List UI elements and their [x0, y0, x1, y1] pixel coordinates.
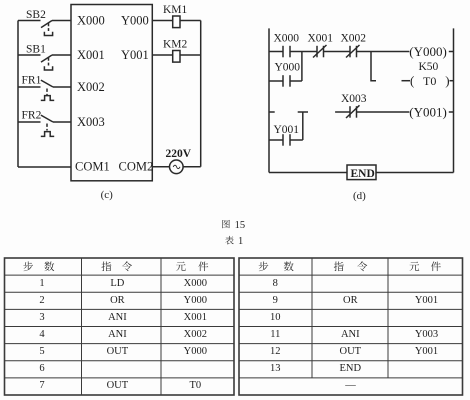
- svg-text:LD: LD: [110, 278, 124, 289]
- svg-text:X000: X000: [184, 278, 207, 289]
- svg-text:(Y000): (Y000): [409, 44, 447, 59]
- svg-text:4: 4: [39, 329, 45, 340]
- svg-text:OUT: OUT: [107, 346, 129, 357]
- svg-text:11: 11: [270, 329, 280, 340]
- svg-text:Y000: Y000: [275, 62, 301, 74]
- thermal relay contact FR1: [18, 75, 54, 101]
- svg-text:T0: T0: [423, 74, 436, 88]
- wire rail stub rung2: [269, 111, 275, 113]
- svg-text:ANI: ANI: [108, 312, 127, 323]
- node junction A: [301, 52, 303, 82]
- contact X003 (NC): [341, 93, 367, 118]
- table header left: [23, 261, 208, 271]
- wire to X003: [335, 111, 350, 113]
- svg-text:Y001: Y001: [415, 346, 438, 357]
- contactor coil KM2: [163, 39, 188, 63]
- svg-text:(: (: [410, 73, 414, 88]
- caption 图 15: [222, 220, 230, 228]
- svg-text:COM2: COM2: [119, 160, 154, 174]
- svg-text:KM2: KM2: [163, 39, 188, 51]
- svg-text:X000: X000: [274, 33, 300, 45]
- AC source 220V: [166, 148, 192, 174]
- svg-text:FR1: FR1: [22, 75, 42, 87]
- svg-text:X003: X003: [341, 93, 367, 105]
- wire END to right rail: [376, 172, 454, 174]
- ladder left rail: [268, 28, 270, 172]
- svg-text:15: 15: [235, 220, 246, 231]
- table body left: [39, 278, 207, 391]
- svg-text:COM1: COM1: [75, 160, 110, 174]
- svg-text:9: 9: [273, 295, 278, 306]
- svg-text:(Y001): (Y001): [409, 104, 447, 119]
- wire X002 to coil Y000: [357, 51, 410, 53]
- svg-text:ANI: ANI: [108, 329, 127, 340]
- svg-text:Y000: Y000: [184, 346, 207, 357]
- svg-text:OUT: OUT: [340, 346, 362, 357]
- wire rung2 segment with branch drop: [298, 112, 308, 140]
- table body right: [270, 278, 438, 391]
- svg-text:5: 5: [39, 346, 44, 357]
- svg-text:END: END: [340, 363, 362, 374]
- wire X001 to X002: [324, 51, 351, 53]
- wire SB1 to X001: [52, 54, 71, 56]
- svg-text:Y001: Y001: [415, 295, 438, 306]
- thermal relay contact FR2: [18, 110, 54, 137]
- instruction table right: [239, 258, 463, 395]
- wire Y001 to KM2: [152, 54, 172, 56]
- svg-text:OR: OR: [110, 295, 125, 306]
- wire SB2 to X000: [52, 20, 71, 22]
- svg-text:X002: X002: [184, 329, 207, 340]
- svg-text:220V: 220V: [166, 148, 192, 160]
- wire source to right bus: [183, 166, 201, 168]
- svg-text:): ): [445, 73, 449, 88]
- PLC box U1: [71, 5, 152, 181]
- wire KM2 to right bus: [180, 54, 201, 56]
- contact Y000 (branch): [269, 62, 302, 87]
- table header right: [259, 261, 441, 271]
- instruction table left: [5, 258, 235, 395]
- contactor coil KM1: [163, 4, 188, 28]
- svg-text:12: 12: [270, 346, 281, 357]
- svg-text:X001: X001: [77, 48, 105, 62]
- svg-text:2: 2: [39, 295, 44, 306]
- coil Y000: [409, 44, 453, 59]
- svg-text:OR: OR: [343, 295, 358, 306]
- wire left input bus (c): [17, 21, 19, 168]
- svg-text:10: 10: [270, 312, 281, 323]
- svg-text:1: 1: [39, 278, 44, 289]
- svg-text:SB2: SB2: [26, 9, 46, 21]
- contact X002 (NC): [341, 33, 367, 58]
- wire bus to COM1: [18, 166, 71, 168]
- wire X000 to X001: [290, 51, 317, 53]
- svg-text:X001: X001: [184, 312, 207, 323]
- svg-text:Y000: Y000: [184, 295, 207, 306]
- svg-text:T0: T0: [189, 380, 201, 391]
- svg-text:6: 6: [39, 363, 44, 374]
- ladder right rail: [453, 28, 455, 172]
- svg-text:—: —: [344, 380, 356, 391]
- wire rail to END: [269, 172, 347, 174]
- svg-text:13: 13: [270, 363, 281, 374]
- svg-text:OUT: OUT: [107, 380, 129, 391]
- svg-text:X000: X000: [77, 14, 105, 28]
- wire right output bus (c): [200, 21, 202, 167]
- svg-text:Y000: Y000: [121, 14, 149, 28]
- svg-text:SB1: SB1: [26, 44, 46, 56]
- caption 表 1: [225, 236, 234, 245]
- wire KM1 to right bus: [180, 20, 201, 22]
- svg-text:Y003: Y003: [415, 329, 438, 340]
- svg-text:FR2: FR2: [22, 110, 42, 122]
- svg-text:END: END: [351, 168, 375, 180]
- svg-text:(d): (d): [353, 190, 366, 202]
- svg-text:X003: X003: [77, 115, 105, 129]
- contact X001 (NC): [308, 33, 334, 58]
- coil Y001: [409, 104, 453, 119]
- svg-text:7: 7: [39, 380, 44, 391]
- PLC terminal labels: [75, 14, 153, 174]
- wire COM2 to source: [152, 166, 169, 168]
- svg-text:K50: K50: [419, 61, 439, 73]
- svg-text:X002: X002: [77, 80, 105, 94]
- contact Y001 (branch): [269, 124, 303, 146]
- contact X000: [274, 33, 300, 58]
- svg-text:Y001: Y001: [274, 124, 300, 136]
- svg-text:X001: X001: [308, 33, 334, 45]
- wire Y000 to KM1: [152, 20, 172, 22]
- wire FR1 to X002: [53, 86, 71, 88]
- svg-text:3: 3: [39, 312, 44, 323]
- svg-text:(c): (c): [101, 189, 114, 201]
- svg-text:8: 8: [273, 278, 278, 289]
- node junction B: [371, 52, 376, 81]
- svg-text:KM1: KM1: [163, 4, 188, 16]
- END box: [347, 165, 376, 180]
- svg-text:X002: X002: [341, 33, 367, 45]
- pushbutton SB1: [18, 44, 53, 71]
- svg-text:ANI: ANI: [341, 329, 360, 340]
- wire X003 to coil Y001: [357, 111, 410, 113]
- timer coil T0 K50: [402, 61, 454, 88]
- wire rail to X000 contact: [269, 51, 283, 53]
- wire FR2 to X003: [53, 121, 71, 123]
- svg-text:Y001: Y001: [121, 48, 149, 62]
- svg-text:1: 1: [238, 236, 243, 247]
- pushbutton SB2: [18, 9, 53, 36]
